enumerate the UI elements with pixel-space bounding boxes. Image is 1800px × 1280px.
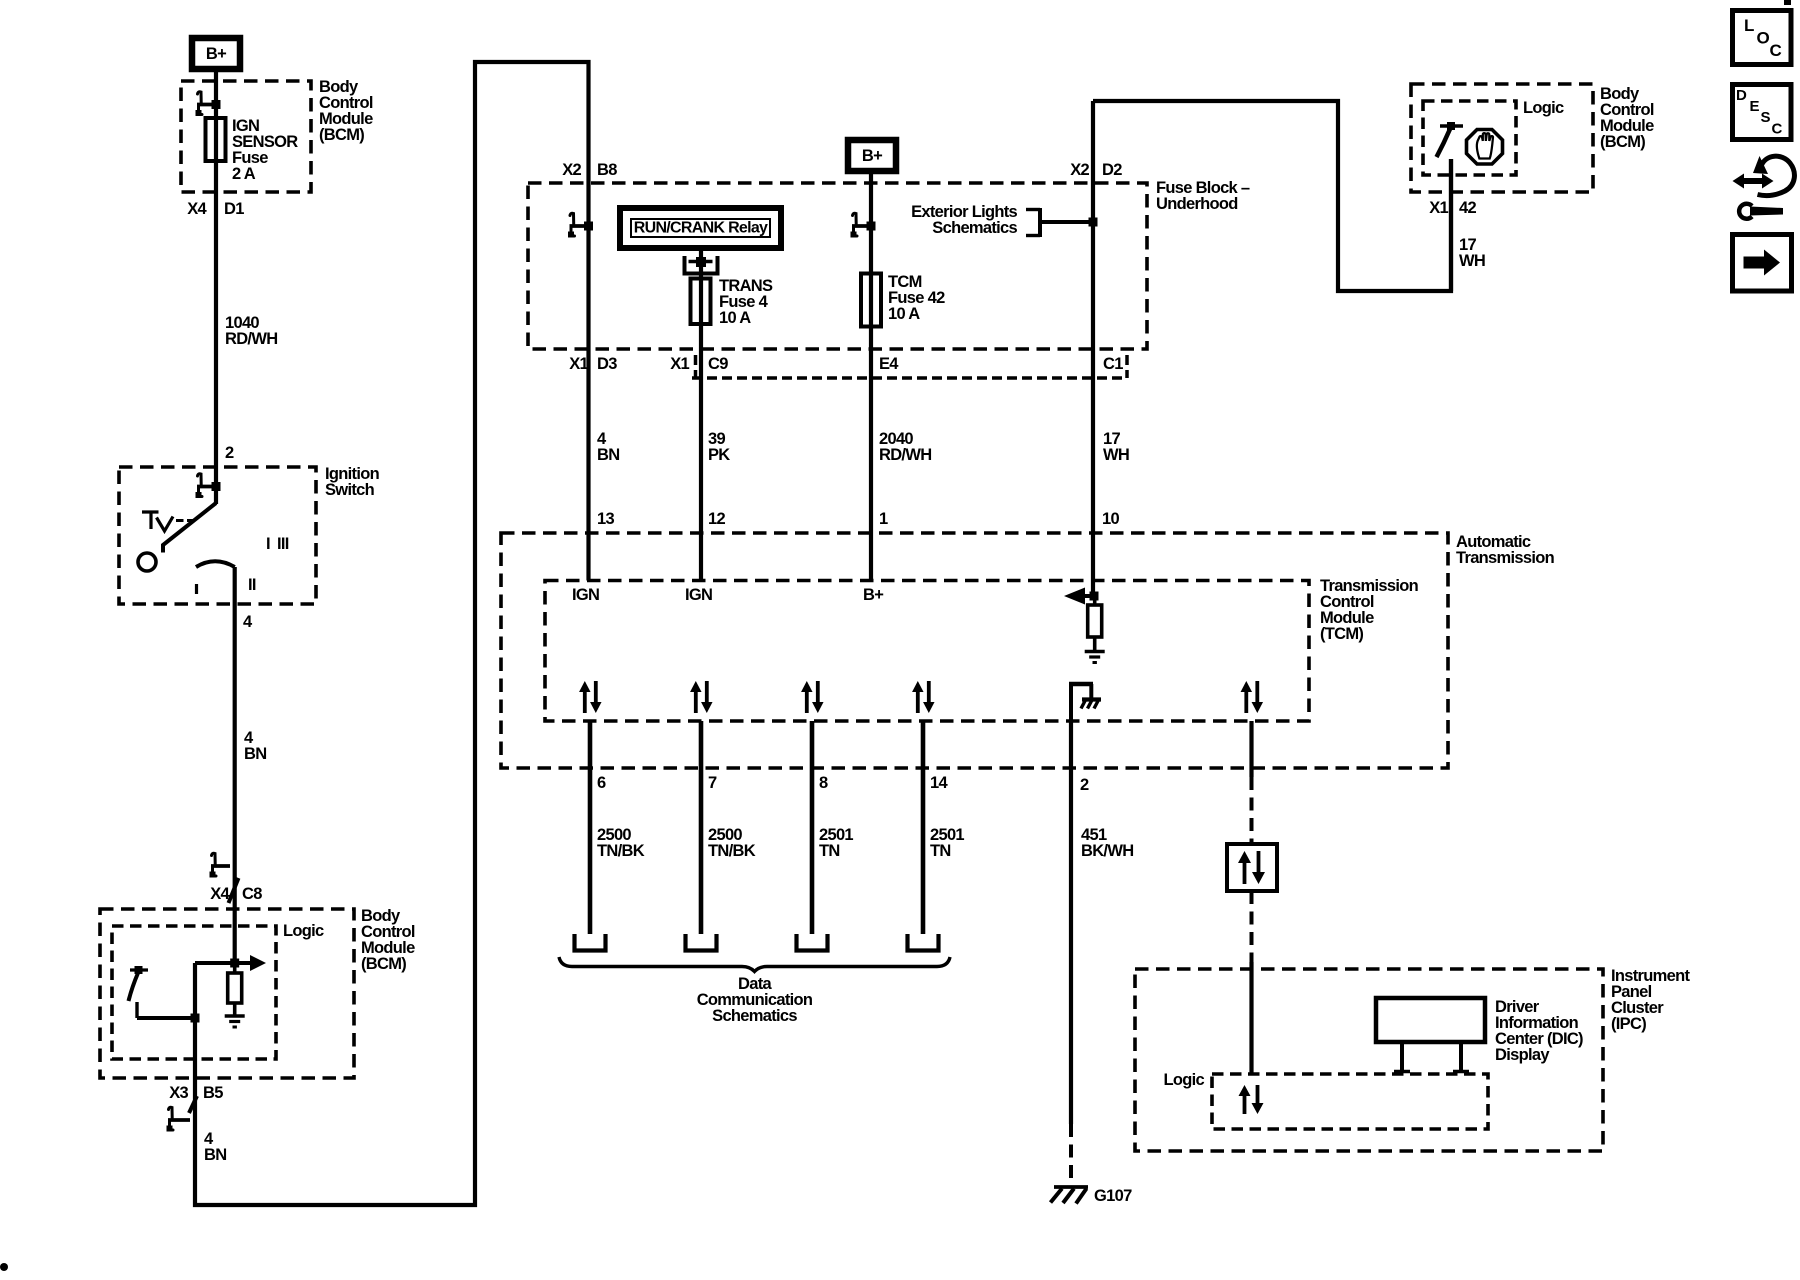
svg-text:E4: E4 [879, 355, 899, 373]
driver switch in BCM logic [130, 968, 148, 971]
svg-text:TN: TN [930, 842, 951, 860]
serial data arrows TCM channel 6 (to IPC) [1244, 690, 1248, 713]
BCM Logic inner dashed box (bottom-left) [112, 926, 276, 1059]
svg-text:12: 12 [708, 510, 725, 528]
svg-text:10 A: 10 A [888, 305, 920, 323]
connector clip at ignition switch pin 2 [198, 474, 202, 485]
wire serial data box to IPC [1250, 891, 1254, 962]
wire TCM channel 6 to IPC (serial data) [1249, 721, 1253, 777]
driver switch in BCM logic (top-right) [1440, 124, 1463, 127]
svg-text:WH: WH [1103, 446, 1129, 464]
svg-text:RD/WH: RD/WH [225, 330, 277, 348]
signal arrow inside BCM logic [195, 961, 252, 965]
svg-text:Logic: Logic [283, 922, 324, 940]
page corner mark bottom left [0, 1263, 8, 1271]
DIC display legs [1400, 1042, 1404, 1071]
svg-text:Underhood: Underhood [1156, 195, 1238, 213]
svg-text:1: 1 [879, 510, 888, 528]
svg-text:S: S [1761, 109, 1771, 126]
svg-text:X1: X1 [1429, 199, 1448, 217]
svg-text:PK: PK [708, 446, 730, 464]
wire top run from D2 to BCM X1-42 [1093, 101, 1451, 291]
svg-text:B8: B8 [597, 161, 617, 179]
svg-text:IGN: IGN [685, 586, 712, 604]
svg-text:Transmission: Transmission [1456, 549, 1555, 567]
svg-text:(BCM): (BCM) [361, 955, 406, 973]
svg-text:IGN: IGN [572, 586, 599, 604]
svg-text:D: D [1736, 87, 1747, 104]
svg-text:III: III [277, 535, 289, 553]
svg-text:D3: D3 [597, 355, 617, 373]
svg-text:B5: B5 [203, 1084, 223, 1102]
fuse block inner connector box (X1) [692, 376, 1127, 380]
data link terminal pin 8 [797, 934, 828, 951]
Driver Information Center (DIC) Display box [1376, 998, 1485, 1042]
TCM input arrow at pin 10 [1082, 594, 1093, 598]
connector clip at BCM X4 C8 [212, 853, 216, 864]
svg-text:Switch: Switch [325, 481, 375, 499]
Transmission Control Module (TCM) dashed box [545, 581, 1309, 722]
svg-text:14: 14 [930, 774, 948, 792]
svg-text:C: C [1772, 121, 1783, 138]
ground in TCM [1085, 650, 1105, 653]
wire from ignition switch pin 4 down to BCM X4-C8 (circuit 4 BN) [233, 567, 237, 963]
fuse TRANS Fuse 4 10A [691, 279, 711, 325]
svg-text:L: L [1744, 16, 1754, 35]
exterior lights branch bracket [1038, 208, 1042, 237]
B+ battery feed symbol (top left) [192, 38, 240, 69]
junction dot in BCM logic [191, 1014, 200, 1023]
RUN/CRANK Relay label box [620, 208, 781, 248]
connector pass tick X4/C8 [229, 878, 239, 903]
wire TCM pin 7 (circuit 2500 TN/BK) [699, 721, 704, 934]
svg-text:2: 2 [1080, 776, 1089, 794]
svg-text:TN/BK: TN/BK [597, 842, 645, 860]
connector clip at fuse block B+ feed [853, 213, 857, 224]
fuse IGN SENSOR Fuse 2A [206, 118, 226, 161]
svg-text:X2: X2 [1070, 161, 1089, 179]
svg-text:TN/BK: TN/BK [708, 842, 756, 860]
svg-text:X2: X2 [562, 161, 581, 179]
ignition switch key mark (T) [142, 510, 159, 513]
icon DESC box [1733, 85, 1792, 140]
svg-text:G107: G107 [1094, 1187, 1132, 1205]
svg-text:(IPC): (IPC) [1611, 1015, 1646, 1033]
ignition switch key mark dashes [176, 519, 184, 522]
wire fuse block D2 to TCM pin 10 (circuit 17 WH upper) [1091, 101, 1095, 596]
svg-text:D2: D2 [1102, 161, 1122, 179]
svg-text:O: O [1757, 29, 1770, 48]
Body Control Module (BCM) bottom-left outer dashed box [100, 909, 354, 1078]
svg-text:E: E [1750, 98, 1760, 115]
serial data arrows TCM channel 3 [805, 690, 809, 713]
svg-text:TN: TN [819, 842, 840, 860]
svg-text:X3: X3 [169, 1084, 188, 1102]
icon navigation curve [1758, 156, 1795, 195]
wire TCM pin 2 to G107 (circuit 451 BK/WH) [1069, 721, 1073, 1124]
svg-text:RUN/CRANK Relay: RUN/CRANK Relay [634, 220, 768, 237]
serial data arrows TCM channel 4 [916, 690, 920, 713]
B+ battery feed symbol (middle) [848, 140, 896, 171]
wire BCM logic to X1-42 (circuit 17 WH) [1449, 159, 1453, 291]
svg-text:Schematics: Schematics [712, 1007, 797, 1025]
svg-text:C: C [1770, 41, 1782, 60]
ignition switch OFF position circle [138, 553, 156, 571]
svg-text:42: 42 [1459, 199, 1476, 217]
relay contact bracket [683, 256, 687, 275]
svg-text:BK/WH: BK/WH [1081, 842, 1133, 860]
resistor in TCM [1093, 596, 1097, 605]
data link terminal pin 7 [686, 934, 717, 951]
svg-text:Display: Display [1495, 1046, 1550, 1064]
wire TCM pin 14 (circuit 2501 TN) [921, 721, 926, 934]
wire TCM pin 8 (circuit 2501 TN) [810, 721, 815, 934]
ignition switch blade [163, 503, 216, 553]
svg-text:BN: BN [597, 446, 619, 464]
wire from B+ to ignition switch (circuit 1040) [214, 69, 218, 504]
svg-text:B+: B+ [206, 45, 226, 63]
ignition switch key mark (V) [157, 517, 174, 532]
svg-text:I: I [266, 535, 270, 553]
svg-text:B+: B+ [863, 586, 883, 604]
Ignition Switch dashed box [119, 467, 316, 604]
Instrument Panel Cluster (IPC) dashed box [1135, 969, 1603, 1151]
wire B+ to TCM pin 1 (circuit 2040 RD/WH) [869, 171, 873, 581]
svg-text:X4: X4 [210, 885, 230, 903]
svg-text:C9: C9 [708, 355, 728, 373]
svg-text:BN: BN [244, 745, 266, 763]
icon arrow box [1733, 235, 1792, 292]
ignition switch wiper arc [196, 561, 235, 567]
fuse TCM Fuse 42 10A [861, 274, 881, 327]
connector clip at fuse block B8 [570, 213, 574, 224]
junction dot at TCM pull-up [1090, 592, 1099, 601]
svg-text:C1: C1 [1103, 355, 1123, 373]
Fuse Block - Underhood dashed box [528, 183, 1147, 349]
svg-text:Logic: Logic [1164, 1071, 1205, 1089]
svg-text:BN: BN [204, 1146, 226, 1164]
svg-text:C8: C8 [242, 885, 262, 903]
connector clip inside BCM at IGN SENSOR fuse feed [198, 92, 202, 103]
svg-text:X1: X1 [569, 355, 588, 373]
data link terminal pin 14 [908, 934, 939, 951]
data link terminal pin 6 [575, 934, 606, 951]
svg-text:X1: X1 [670, 355, 689, 373]
ground in BCM logic [225, 1014, 245, 1017]
svg-text:RD/WH: RD/WH [879, 446, 931, 464]
svg-text:X4: X4 [187, 200, 207, 218]
TCM internal chassis ground for pin 2 [1069, 682, 1073, 721]
icon LOC box [1733, 11, 1792, 65]
connector clip at BCM X3 B5 [169, 1107, 173, 1118]
serial data arrows in IPC logic [1243, 1094, 1247, 1114]
hand/stop icon octagon in BCM logic [1467, 130, 1503, 165]
junction dot wire-4BN to logic [230, 959, 239, 968]
brace for data communication wires [559, 957, 950, 972]
connector pass tick X3/B5 [189, 1096, 197, 1113]
svg-text:7: 7 [708, 774, 717, 792]
svg-text:(BCM): (BCM) [319, 126, 364, 144]
resistor in BCM logic [233, 963, 237, 973]
svg-text:13: 13 [597, 510, 614, 528]
svg-text:8: 8 [819, 774, 828, 792]
ground G107 [1054, 1185, 1088, 1189]
svg-text:B+: B+ [862, 147, 882, 165]
svg-text:II: II [248, 576, 256, 594]
svg-text:(BCM): (BCM) [1600, 133, 1645, 151]
IPC Logic inner dashed box [1212, 1074, 1488, 1129]
svg-text:6: 6 [597, 774, 606, 792]
wire BCM logic down and around to fuse block B8 (long loop) [195, 62, 589, 1205]
svg-text:10: 10 [1102, 510, 1119, 528]
svg-text:Logic: Logic [1523, 99, 1564, 117]
wire relay to TCM pin 12 (circuit 39 PK) [699, 248, 703, 581]
Automatic Transmission dashed box [501, 533, 1448, 768]
Body Control Module (BCM) top-left dashed box [181, 81, 311, 192]
svg-text:WH: WH [1459, 252, 1485, 270]
wire TCM pin 6 (circuit 2500 TN/BK) [588, 721, 593, 934]
Body Control Module (BCM) top-right outer dashed box [1411, 84, 1593, 192]
svg-text:2 A: 2 A [232, 165, 256, 183]
junction dot exterior lights tap [1089, 218, 1098, 227]
page corner mark top right [1784, 0, 1791, 5]
svg-text:D1: D1 [224, 200, 244, 218]
svg-text:(TCM): (TCM) [1320, 625, 1363, 643]
serial data arrows TCM channel 1 [583, 690, 587, 713]
serial data arrows box (between TCM and IPC) [1227, 844, 1277, 891]
icon wrench [1739, 204, 1752, 219]
svg-text:2: 2 [225, 444, 234, 462]
svg-text:10 A: 10 A [719, 309, 751, 327]
icon navigation double arrow [1733, 174, 1774, 189]
svg-text:Schematics: Schematics [932, 219, 1017, 237]
serial data arrows TCM channel 2 [694, 690, 698, 713]
BCM Logic inner dashed box (top-right) [1423, 101, 1516, 175]
